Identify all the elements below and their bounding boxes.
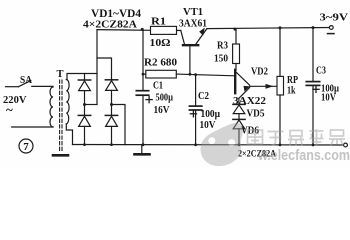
node output + terminal circle — [329, 26, 333, 30]
svg-text:VD6: VD6 — [241, 126, 259, 137]
watermark logo blob — [201, 123, 243, 166]
svg-text:16V: 16V — [154, 105, 170, 116]
svg-text:T: T — [57, 69, 64, 80]
wire R3 top lead — [235, 29, 237, 44]
wire VT2 to RP wiper with arrow — [250, 85, 277, 87]
wire base line R2 to VT2 — [176, 74, 234, 76]
node circled figure number 7 — [19, 139, 33, 153]
wire col1 cathode stub — [84, 74, 86, 81]
svg-text:150: 150 — [214, 54, 228, 65]
svg-text:SA: SA — [20, 75, 33, 86]
ground symbol at C1 — [135, 145, 150, 154]
transistor VT1 — [181, 28, 207, 75]
wire top rail VT1 collector to output — [207, 28, 330, 29]
wire secondary bottom to rail — [66, 124, 72, 145]
svg-text:~: ~ — [6, 102, 13, 117]
node C2 junction — [194, 73, 197, 76]
svg-text:3AX22: 3AX22 — [233, 96, 266, 107]
wire R3 bottom lead to VT2 collector — [235, 64, 237, 71]
svg-text:R2 680: R2 680 — [144, 57, 177, 68]
potentiometer RP — [277, 76, 284, 95]
ground core earth bar — [53, 154, 68, 157]
node R3 top junction — [234, 28, 237, 31]
output minus mark — [328, 33, 335, 35]
svg-text:10V: 10V — [321, 93, 336, 104]
wire col1 midpoint jog to riser — [85, 104, 98, 106]
resistor R2 — [146, 70, 177, 78]
svg-text:VD2: VD2 — [251, 66, 268, 77]
svg-text:10V: 10V — [200, 120, 216, 131]
wire C3 top lead — [312, 28, 314, 82]
transistor VT2 — [235, 70, 250, 99]
wire col1 top wire with secondary-top stub — [67, 74, 97, 80]
wire R2 left lead to C1 riser — [143, 73, 146, 75]
node VT1 base junction — [189, 73, 192, 76]
node bridge col2 midpoint — [110, 103, 113, 106]
svg-text:C2: C2 — [198, 91, 209, 102]
svg-text:R3: R3 — [217, 40, 228, 51]
wire col2 top feed — [97, 58, 112, 80]
svg-text:10Ω: 10Ω — [150, 38, 171, 49]
diode VD2b (bridge col1 bottom) — [78, 115, 90, 144]
node R2/C1 junction — [142, 73, 145, 76]
svg-text:VT1: VT1 — [183, 6, 203, 18]
transformer T secondary winding — [66, 80, 69, 125]
node bridge col1 midpoint — [83, 103, 86, 106]
capacitor C2 — [189, 106, 201, 110]
wire riser from bridge plus up to rail — [96, 30, 98, 105]
wire col2 midpoint jog down to minus rail — [112, 105, 126, 145]
capacitor C1 — [136, 91, 148, 96]
svg-text:3AX61: 3AX61 — [179, 18, 207, 29]
wire RP bottom lead — [279, 95, 281, 145]
node RP top junction — [279, 26, 282, 29]
wire C1 bottom lead — [142, 95, 144, 145]
node output - terminal circle — [344, 143, 348, 147]
svg-text:500µ: 500µ — [156, 92, 174, 103]
node junction dots on bottom rail — [83, 143, 314, 146]
svg-text:1k: 1k — [287, 86, 296, 97]
label C1 plus sign — [146, 97, 152, 103]
svg-text:100µ: 100µ — [201, 109, 221, 120]
capacitor C3 — [306, 82, 319, 86]
svg-text:RP: RP — [287, 75, 298, 86]
label C2 plus sign — [190, 111, 196, 117]
wire C3 bottom lead — [312, 85, 314, 144]
wire 220V bottom lead — [12, 126, 53, 128]
wire C2 bottom lead — [195, 110, 197, 145]
svg-text:4×2CZ82A: 4×2CZ82A — [83, 18, 137, 30]
wire C2 top lead — [195, 75, 197, 106]
wire top rail left segment (bridge+ to R1) — [97, 29, 151, 32]
diode VD6 — [233, 119, 245, 144]
transformer core — [60, 80, 62, 151]
diode VD1 (bridge col1 top) — [78, 80, 90, 115]
svg-text:C3: C3 — [316, 65, 326, 76]
svg-text:3~9V: 3~9V — [320, 13, 349, 24]
diode VD3 (bridge col2 top) — [105, 80, 117, 116]
resistor R1 — [151, 26, 177, 34]
diode VD4 (bridge col2 bottom) — [105, 115, 117, 144]
resistor R3 — [233, 44, 240, 64]
wire top rail R1 to VT1 — [177, 29, 181, 31]
svg-text:w.elecfans.com: w.elecfans.com — [257, 148, 350, 164]
transformer T primary winding — [50, 87, 53, 127]
wire bottom minus rail — [73, 144, 346, 147]
diode VD5 — [233, 104, 245, 119]
svg-text:VD5: VD5 — [247, 108, 265, 119]
switch SA — [6, 81, 54, 87]
watermark chinese brand text — [248, 129, 346, 146]
svg-text:C1: C1 — [153, 81, 163, 92]
label C3 plus sign — [313, 86, 319, 92]
wire RP top lead — [279, 28, 281, 77]
wire VT2 emitter to VD5 — [238, 98, 240, 104]
wire C1 riser (rail to plate through R2 node) — [142, 29, 144, 90]
node rail/C1 junction — [141, 28, 144, 31]
svg-text:R1: R1 — [151, 17, 166, 28]
node C3 top junction — [312, 26, 315, 29]
svg-text:7: 7 — [23, 141, 29, 153]
